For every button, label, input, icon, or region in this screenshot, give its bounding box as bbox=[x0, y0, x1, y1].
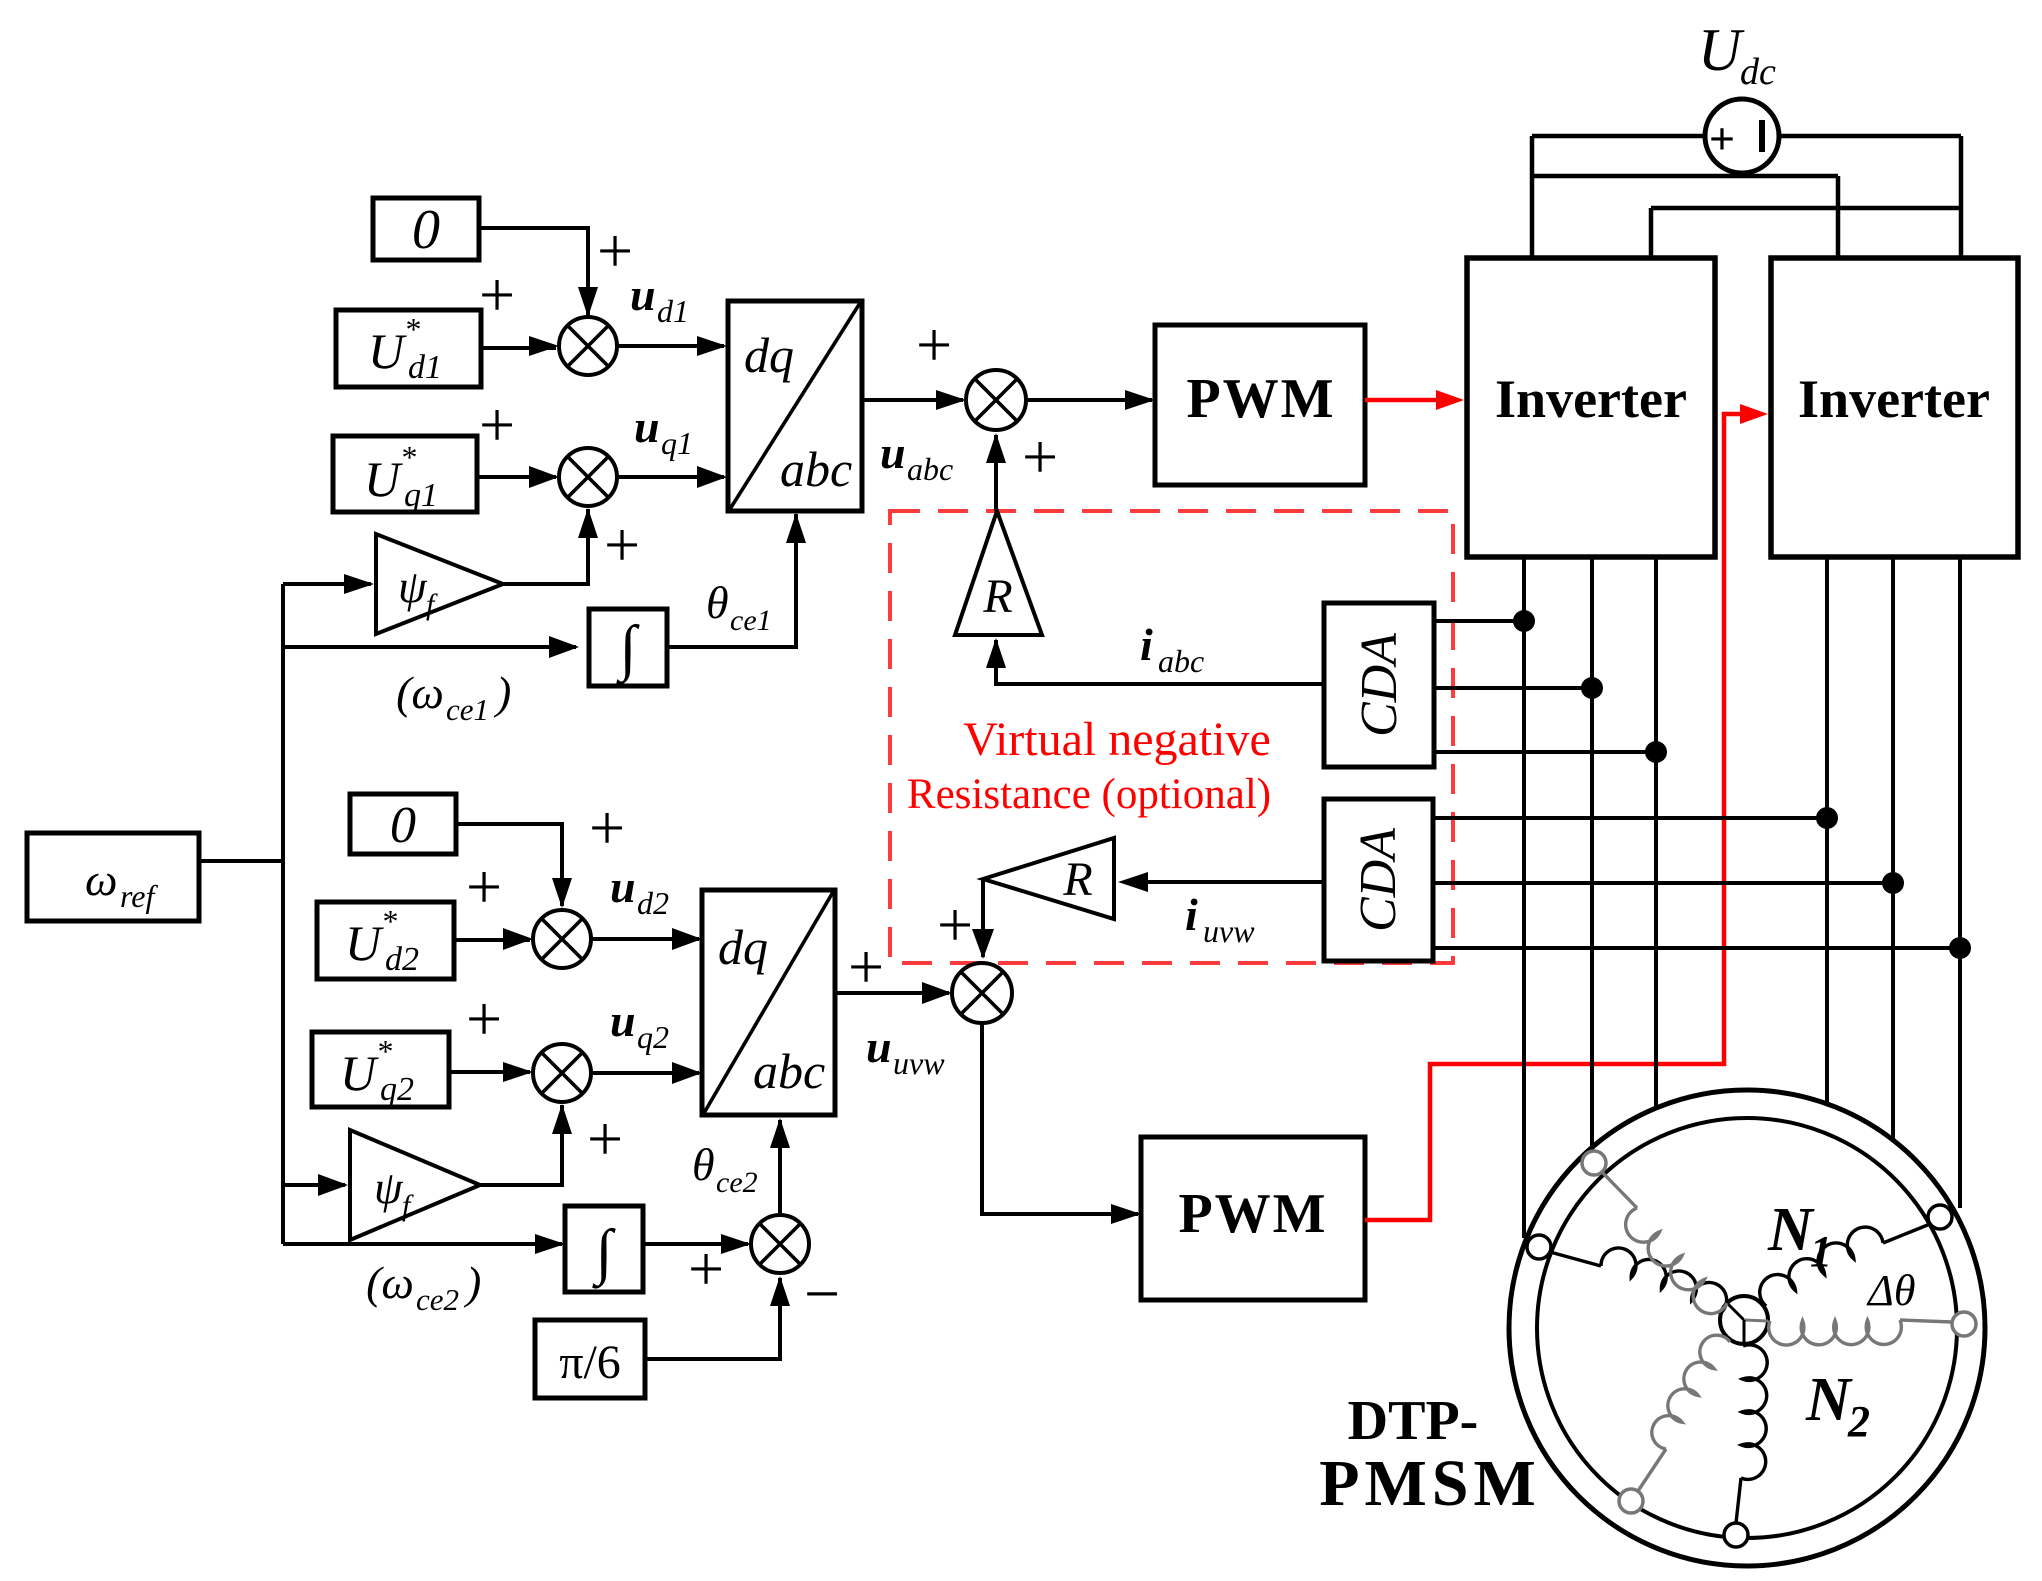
wire: U*q2 to S4 bbox=[449, 1070, 530, 1074]
svg-text:uvw: uvw bbox=[893, 1045, 945, 1081]
svg-text:i: i bbox=[1185, 889, 1198, 940]
svg-text:+: + bbox=[466, 851, 502, 922]
svg-text:+: + bbox=[688, 1233, 724, 1304]
junction dot a1 bbox=[1513, 610, 1535, 632]
svg-text:PWM: PWM bbox=[1178, 1183, 1327, 1245]
PWM block 1 bbox=[1155, 325, 1365, 485]
svg-text:*: * bbox=[381, 903, 397, 939]
svg-text:+: + bbox=[587, 1103, 623, 1174]
wire: w_ref to trunk bbox=[199, 859, 283, 863]
svg-text:ψ: ψ bbox=[398, 561, 428, 612]
svg-text:q1: q1 bbox=[661, 425, 693, 461]
summing junction S7 bbox=[952, 963, 1012, 1023]
wire: S3 to dq/abc 2, node u_d2 bbox=[591, 937, 699, 941]
wire: U*q1 to S2 bbox=[477, 475, 556, 479]
svg-text:0: 0 bbox=[390, 797, 416, 854]
Inverter block 1 bbox=[1467, 258, 1715, 557]
reference block U*q1 bbox=[333, 436, 477, 512]
wire: integrator 2 to summing junction S5 bbox=[643, 1242, 748, 1246]
dc bus right drop to Inverter 2 bbox=[1959, 136, 1964, 258]
svg-text:q1: q1 bbox=[404, 477, 438, 514]
svg-text:ω: ω bbox=[85, 854, 117, 905]
red wire: PWM 2 to Inverter 2 bbox=[1365, 414, 1740, 1220]
svg-text:R: R bbox=[1062, 853, 1092, 906]
wire: integrator 1 to dq/abc 1 bottom, node theta_ce1 bbox=[667, 514, 796, 647]
summing junction S4 bbox=[533, 1044, 591, 1102]
junction dot b3 bbox=[1949, 937, 1971, 959]
DTP-PMSM motor outer frame bbox=[1509, 1090, 1985, 1566]
junction dot b2 bbox=[1882, 872, 1904, 894]
svg-text:1: 1 bbox=[1810, 1227, 1832, 1276]
svg-text:*: * bbox=[376, 1033, 392, 1069]
svg-text:PWM: PWM bbox=[1186, 368, 1335, 430]
red wire: PWM 1 to Inverter 1 bbox=[1365, 398, 1436, 403]
svg-text:abc: abc bbox=[780, 441, 852, 497]
wire: U*d1 to S1 bbox=[481, 346, 556, 350]
integrator block 1 bbox=[589, 609, 667, 686]
winding N1 phase b (top-right terminal) bbox=[1928, 1205, 1952, 1229]
dc bus drop to Inverter 2 (rail 2) bbox=[1836, 176, 1841, 258]
svg-text:q2: q2 bbox=[380, 1071, 414, 1108]
svg-text:ce1: ce1 bbox=[446, 692, 489, 727]
reference block U*q2 bbox=[312, 1032, 449, 1107]
svg-text:ref: ref bbox=[120, 878, 158, 914]
trunk vertical wire bbox=[281, 584, 285, 1244]
wires: ADC1 taps to inverter-1 phase lines bbox=[1434, 619, 1524, 623]
svg-text:+: + bbox=[604, 509, 640, 580]
svg-text:PMSM: PMSM bbox=[1319, 1447, 1541, 1520]
svg-text:+: + bbox=[597, 215, 633, 286]
svg-text:Virtual negative: Virtual negative bbox=[963, 713, 1271, 766]
svg-text:+: + bbox=[937, 889, 973, 960]
svg-text:uvw: uvw bbox=[1203, 913, 1255, 949]
svg-text:Inverter: Inverter bbox=[1798, 369, 1990, 429]
wire: R2 tip to summing junction S7 bbox=[981, 879, 985, 957]
pi/6 constant block bbox=[535, 1320, 645, 1398]
reference block w_ref bbox=[27, 833, 199, 921]
svg-text:d1: d1 bbox=[657, 293, 689, 329]
gain triangle R2 (points left) bbox=[983, 838, 1114, 919]
svg-text:abc: abc bbox=[907, 451, 953, 487]
svg-text:ce2: ce2 bbox=[416, 1282, 459, 1317]
svg-text:): ) bbox=[493, 667, 511, 718]
ADC block 2 bbox=[1324, 799, 1433, 961]
wire: ADC1 to R1 base, node i_abc bbox=[996, 640, 1324, 684]
svg-text:U: U bbox=[340, 1045, 379, 1101]
svg-text:u: u bbox=[866, 1021, 892, 1072]
svg-text:d1: d1 bbox=[408, 349, 442, 386]
svg-text:(ω: (ω bbox=[396, 667, 444, 718]
gain triangle psi_f (channel 1) bbox=[376, 534, 503, 634]
svg-text:Δθ: Δθ bbox=[1866, 1266, 1915, 1315]
svg-text:U: U bbox=[364, 451, 403, 507]
winding N1 phase a (left terminal) bbox=[1527, 1235, 1551, 1259]
wire: R1 tip to S6 bottom bbox=[994, 435, 998, 511]
PWM block 2 bbox=[1141, 1137, 1365, 1300]
summing junction S6 bbox=[966, 370, 1026, 430]
inverter 2 phase wires bbox=[1825, 557, 1829, 1104]
winding N2 phase u (top-left terminal, gray) bbox=[1582, 1151, 1606, 1175]
winding N2 phase w (bottom-left terminal, gray) bbox=[1619, 1489, 1643, 1513]
dc bus left drop to Inverter 1 bbox=[1530, 136, 1535, 258]
svg-text:(ω: (ω bbox=[366, 1257, 414, 1308]
wire: S1 to dq/abc block 1, node u_d1 bbox=[617, 344, 724, 348]
svg-text:N: N bbox=[1805, 1366, 1853, 1434]
Inverter block 2 bbox=[1771, 258, 2018, 557]
svg-text:u: u bbox=[610, 861, 636, 912]
svg-text:*: * bbox=[404, 311, 420, 347]
dc bus drop to Inverter 1 (rail 3) bbox=[1649, 208, 1654, 258]
svg-text:dc: dc bbox=[1740, 51, 1776, 93]
wire: dq/abc 1 to summing junction S6, node u_abc bbox=[862, 398, 963, 402]
inverter 1 phase wires bbox=[1522, 557, 1526, 1238]
svg-text:N: N bbox=[1767, 1196, 1815, 1264]
transform block dq/abc 2 bbox=[702, 890, 835, 1115]
svg-text:*: * bbox=[400, 439, 416, 475]
svg-text:+: + bbox=[466, 983, 502, 1054]
DC source U_dc bbox=[1705, 99, 1779, 173]
svg-text:CDA: CDA bbox=[1351, 633, 1408, 737]
junction dot a2 bbox=[1581, 677, 1603, 699]
wires: ADC2 taps to inverter-2 phase lines bbox=[1433, 816, 1827, 820]
svg-text:ce2: ce2 bbox=[716, 1166, 758, 1199]
svg-text:+: + bbox=[848, 931, 884, 1002]
wire: pi/6 to S5 bottom bbox=[645, 1278, 780, 1359]
svg-text:Inverter: Inverter bbox=[1495, 369, 1687, 429]
wire: 0 block to summing junction S1 bbox=[479, 228, 588, 315]
svg-text:0: 0 bbox=[412, 199, 440, 261]
svg-text:): ) bbox=[463, 1257, 481, 1308]
svg-text:abc: abc bbox=[753, 1043, 825, 1099]
svg-text:ψ: ψ bbox=[374, 1162, 404, 1213]
svg-text:Resistance (optional): Resistance (optional) bbox=[907, 771, 1271, 818]
wire: psi_f 1 output to S2 bottom bbox=[503, 509, 588, 584]
svg-text:u: u bbox=[630, 269, 656, 320]
wire: S7 to PWM 2 bbox=[982, 1023, 1138, 1214]
junction dot b1 bbox=[1816, 807, 1838, 829]
svg-text:U: U bbox=[1698, 17, 1745, 83]
svg-text:i: i bbox=[1140, 619, 1153, 670]
svg-text:−: − bbox=[804, 1258, 840, 1329]
wire: U*d2 to S3 bbox=[454, 938, 530, 942]
summing junction S5 bbox=[751, 1215, 809, 1273]
svg-text:π/6: π/6 bbox=[559, 1336, 621, 1389]
reference block U*d2 bbox=[317, 902, 454, 979]
svg-text:u: u bbox=[880, 427, 906, 478]
junction dot a3 bbox=[1645, 741, 1667, 763]
svg-text:dq: dq bbox=[718, 919, 768, 975]
dc bus rail 2 bbox=[1532, 174, 1838, 179]
red dashed box: virtual negative resistance bbox=[890, 511, 1453, 963]
wire: psi_f 2 output to S4 bottom bbox=[480, 1105, 562, 1185]
wire: S2 to dq/abc block 1, node u_q1 bbox=[617, 475, 724, 479]
reference block U*d1 bbox=[336, 310, 481, 387]
integrator block 2 bbox=[565, 1206, 643, 1292]
wire: S4 to dq/abc 2, node u_q2 bbox=[591, 1071, 699, 1075]
dc bus rail 3 bbox=[1651, 206, 1961, 211]
constant block 0 (channel 2) bbox=[350, 794, 456, 854]
svg-text:θ: θ bbox=[692, 1139, 715, 1190]
svg-text:DTP-: DTP- bbox=[1348, 1390, 1479, 1452]
svg-text:dq: dq bbox=[744, 327, 794, 383]
wire: trunk to integrator 1, node (w_ce1) bbox=[283, 645, 576, 649]
summing junction S1 bbox=[559, 317, 617, 375]
wire: S6 to PWM 1 bbox=[1026, 398, 1152, 402]
winding N2 phase v (right terminal, gray) bbox=[1952, 1312, 1976, 1336]
svg-text:U: U bbox=[345, 915, 384, 971]
ADC block 1 bbox=[1324, 603, 1434, 767]
wire: 0 block to summing junction S3 bbox=[456, 824, 562, 906]
svg-text:R: R bbox=[982, 570, 1012, 623]
dc bus rail 1 bbox=[1532, 134, 1705, 139]
summing junction S3 bbox=[533, 910, 591, 968]
svg-text:CDA: CDA bbox=[1350, 828, 1407, 932]
wire: dq/abc 2 to summing junction S7, node u_uvw bbox=[835, 991, 949, 995]
svg-text:U: U bbox=[368, 323, 407, 379]
wire: ADC2 to R2 base, node i_uvw bbox=[1140, 880, 1324, 884]
svg-text:d2: d2 bbox=[637, 885, 669, 921]
gain triangle psi_f (channel 2) bbox=[350, 1130, 480, 1240]
svg-text:2: 2 bbox=[1847, 1397, 1870, 1446]
wire: trunk to psi_f 2 bbox=[283, 1183, 345, 1187]
svg-text:+: + bbox=[479, 389, 515, 460]
constant block 0 (channel 1) bbox=[373, 198, 479, 260]
svg-text:u: u bbox=[610, 995, 636, 1046]
motor neutral point bbox=[1720, 1296, 1768, 1344]
svg-text:u: u bbox=[634, 401, 660, 452]
svg-text:+: + bbox=[479, 259, 515, 330]
transform block dq/abc 1 bbox=[728, 301, 862, 511]
svg-text:q2: q2 bbox=[637, 1019, 669, 1055]
svg-text:abc: abc bbox=[1158, 643, 1204, 679]
wire: trunk to psi_f 1 bbox=[283, 582, 371, 586]
svg-text:+: + bbox=[1022, 421, 1058, 492]
winding N1 phase c (bottom terminal) bbox=[1724, 1523, 1748, 1547]
summing junction S2 bbox=[559, 448, 617, 506]
svg-text:ce1: ce1 bbox=[730, 604, 772, 637]
svg-text:+: + bbox=[589, 792, 625, 863]
gain triangle R1 (points up) bbox=[955, 511, 1042, 635]
svg-text:+: + bbox=[1709, 113, 1735, 164]
wire: trunk to integrator 2, node (w_ce2) bbox=[283, 1242, 562, 1246]
svg-text:d2: d2 bbox=[385, 941, 419, 978]
svg-text:+: + bbox=[916, 309, 952, 380]
wire: S5 to dq/abc 2 bottom, node theta_ce2 bbox=[778, 1120, 782, 1215]
svg-text:θ: θ bbox=[706, 577, 729, 628]
